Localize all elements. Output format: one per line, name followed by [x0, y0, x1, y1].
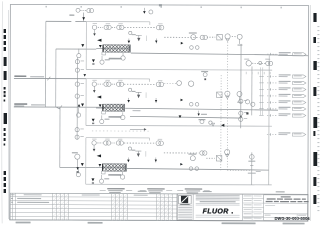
train 1 inlet valve 1 [81, 44, 84, 47]
train 1 sample point [155, 39, 157, 44]
line break 1 [47, 77, 50, 81]
train 3 sample point [155, 158, 157, 163]
drop arrow c [198, 111, 200, 114]
top PI instrument [76, 8, 80, 12]
scan page edge [1, 1, 3, 223]
train 2 sample point [155, 98, 157, 103]
discharge connector t1 [267, 53, 277, 55]
off-page connector 7 [267, 114, 277, 116]
approvals grid [243, 198, 264, 200]
off-page connector 5 [267, 101, 277, 103]
train 2 discharge header [125, 108, 278, 110]
t2 return header [130, 116, 241, 118]
train 1 bubble row [92, 25, 96, 29]
equipment label 2 [147, 188, 165, 189]
dwg number strip [264, 213, 308, 215]
train 1 drain instrument [77, 54, 81, 58]
manifold up arrow [239, 115, 242, 118]
manifold riser [240, 44, 242, 128]
exchanger 3 label [108, 174, 121, 176]
off-page connector 2 [267, 82, 277, 84]
footer text 2 [88, 222, 103, 224]
chain arrow 1 [78, 104, 81, 107]
signal trunk 1 [226, 42, 228, 170]
off-page connector 3 [267, 88, 277, 90]
table top labels [138, 191, 147, 192]
drawing title text [264, 195, 308, 203]
cw supply line 1 [14, 77, 86, 79]
equipment label 3 [185, 188, 203, 189]
train 1 right cluster [164, 36, 199, 38]
feed riser C [59, 107, 61, 167]
feed riser B [55, 49, 57, 107]
exchanger 1 label [109, 58, 122, 60]
title block frame [177, 194, 308, 221]
train 3 hx vent arrow [127, 157, 129, 159]
top TI instrument [87, 9, 91, 13]
svg-text:FLUOR: FLUOR [203, 208, 229, 215]
feed riser A [45, 21, 47, 107]
train 2 inlet valve 1 [81, 103, 84, 106]
revision row texts [17, 198, 41, 199]
instrument chain riser [76, 58, 78, 140]
t2 header valve arrow [179, 115, 182, 118]
heat exchanger E-30001 [96, 48, 103, 50]
big box right edge [268, 55, 270, 184]
footer text 4 [283, 223, 305, 225]
train 2 dp instrument [121, 115, 125, 119]
train 3 inlet valve 1 [81, 163, 84, 166]
line break 2 [59, 105, 62, 108]
train 2 drain instrument [76, 113, 80, 117]
train 2 hx vent arrow [128, 98, 130, 100]
heat exchanger E-30003 [96, 167, 103, 169]
train 1 control valve [97, 39, 101, 42]
off-page connector 1 [267, 75, 277, 77]
equipment label 1 [107, 188, 125, 189]
t3 inlet valve [76, 167, 79, 170]
signal trunk 2 [220, 75, 222, 170]
train 2 aux instrument [100, 119, 104, 123]
cw supply label 1 [14, 75, 26, 77]
train 2 bubble row [92, 82, 96, 86]
cw supply label 2 [14, 103, 27, 105]
cw supply line 2 [14, 106, 103, 108]
fluor logo emblem [179, 195, 192, 204]
train 1 aux instrument [100, 60, 104, 64]
train 1 enclosure box [85, 22, 87, 70]
revision table [10, 193, 177, 220]
fluor wordmark + notes [196, 195, 240, 196]
train 2 level stem [93, 86, 95, 90]
border zone ticks [45, 6, 47, 8]
manifold instruments [246, 61, 251, 66]
signal trunk elbow [227, 169, 251, 171]
lower instrument chain [251, 152, 253, 184]
line to frame [278, 54, 308, 56]
t1 inlet feed [56, 48, 96, 50]
train 3 right cluster [164, 152, 199, 154]
train 1 discharge header [131, 53, 278, 55]
manifold riser b [251, 66, 253, 115]
off-page connector low [267, 133, 277, 135]
lower feed circle [75, 154, 80, 159]
train 3 drain instrument [76, 173, 80, 177]
heat exchanger E-30002 [96, 107, 103, 109]
train 3 bubble row [92, 141, 96, 145]
off-page connector 6 [267, 108, 277, 110]
exchanger 2 label [108, 116, 121, 118]
train 3 aux instrument [99, 179, 103, 183]
train 2 control valve [97, 96, 101, 99]
train 3 dp instrument [120, 175, 124, 179]
train 3 inlet valve 2 [98, 164, 101, 167]
makeup water cluster [200, 120, 204, 124]
train 3 vent arrow2 [91, 178, 94, 181]
train 1 dp instrument [121, 56, 125, 60]
train 1 hx vent arrow [128, 38, 130, 40]
off-page connector 4 [267, 95, 277, 97]
left binding marks [4, 29, 6, 33]
chain arrow 2 [83, 74, 86, 77]
right page edge line [309, 5, 311, 221]
footer text 1 [16, 222, 31, 224]
jump arrow [130, 128, 144, 130]
train 2 right cluster [164, 83, 176, 85]
train 2 inlet valve 2 [99, 104, 102, 107]
train 3 enclosure box [85, 138, 87, 184]
train 3 control valve [97, 154, 101, 157]
connector ladder [259, 67, 261, 115]
interbox dashes row [92, 130, 150, 132]
train 1 level stem [94, 30, 96, 34]
right binding marks [313, 13, 316, 22]
train 1 inlet valve 2 [99, 45, 102, 48]
top vent arrow [143, 8, 145, 11]
train 3 discharge header [127, 168, 269, 170]
footer text 3 [222, 222, 256, 224]
left page edge line [8, 10, 10, 219]
top feed valve arrow [83, 12, 85, 21]
revision header text [24, 194, 42, 195]
top header pipe [46, 20, 71, 22]
train 2 vent arrow2 [92, 119, 95, 122]
train 2 enclosure box [85, 79, 87, 126]
train 3 level stem [93, 145, 95, 149]
train 1 vent arrow2 [92, 59, 95, 62]
